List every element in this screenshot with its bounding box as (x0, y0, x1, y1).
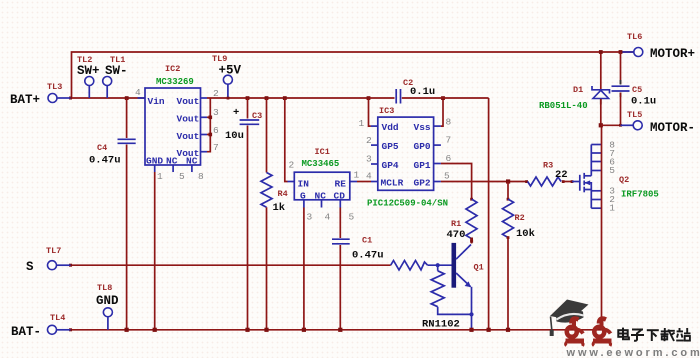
terminal TL6 (621, 32, 696, 61)
wire S line (69, 264, 391, 267)
IC3 pin 1 (359, 118, 378, 129)
watermark url (566, 347, 700, 358)
svg-text:C4: C4 (97, 143, 107, 153)
IC2 pin 7 (201, 142, 219, 153)
svg-text:1k: 1k (273, 202, 286, 214)
svg-text:C5: C5 (632, 85, 642, 95)
svg-text:TL6: TL6 (627, 32, 642, 42)
terminal TL3 BAT+ (10, 82, 71, 107)
IC3 pin 8 Vss (434, 117, 452, 128)
svg-text:Vout: Vout (177, 96, 200, 107)
IC2 pin 6 (201, 125, 220, 136)
svg-text:22: 22 (555, 169, 568, 181)
svg-text:Vss: Vss (414, 122, 431, 133)
IC2 pin 2 (201, 88, 220, 99)
wire drain/source vertical (601, 125, 603, 329)
svg-text:NC: NC (166, 156, 178, 167)
svg-text:TL5: TL5 (627, 110, 642, 120)
svg-text:S: S (26, 260, 34, 274)
watermark char zai (661, 328, 675, 341)
svg-text:C1: C1 (362, 236, 372, 246)
watermark char zi (631, 330, 644, 341)
svg-text:TL7: TL7 (46, 246, 61, 256)
svg-text:BAT-: BAT- (11, 325, 41, 339)
svg-text:www.eeworm.com: www.eeworm.com (566, 347, 700, 358)
svg-text:6: 6 (213, 125, 219, 136)
svg-text:+5V: +5V (219, 64, 242, 78)
capacitor C2 (369, 78, 489, 104)
svg-text:10k: 10k (516, 228, 535, 240)
svg-text:Q1: Q1 (474, 263, 484, 273)
watermark logo hat (550, 300, 589, 337)
wire Vdd drop (367, 96, 371, 126)
svg-text:SW+: SW+ (77, 64, 100, 78)
svg-text:MCLR: MCLR (381, 178, 404, 189)
svg-text:IN: IN (298, 179, 310, 190)
IC3 pin 3 NC stub (366, 154, 378, 165)
terminal TL9 +5V (212, 54, 242, 100)
svg-text:TL4: TL4 (50, 313, 65, 323)
resistor R2 (503, 182, 535, 330)
svg-text:Vout: Vout (177, 131, 200, 142)
wire RE to MCLR (357, 181, 371, 183)
op-amp U IC2 box (145, 64, 201, 167)
svg-text:470: 470 (447, 229, 466, 241)
svg-text:R2: R2 (515, 213, 525, 223)
svg-text:1: 1 (157, 171, 163, 182)
watermark char zhan (676, 328, 690, 341)
IC1 pin 4 NC stub (322, 200, 331, 223)
watermark bug 1 (566, 319, 585, 346)
junction node G/bus (302, 328, 306, 332)
svg-text:+: + (233, 107, 239, 119)
wire top bus (72, 52, 635, 98)
IC2 pin 8 NC stub (192, 165, 204, 182)
svg-text:R4: R4 (278, 189, 288, 199)
IC1 pin 2 IN stub (288, 181, 295, 183)
svg-text:GND: GND (96, 294, 119, 308)
wire bottom bus (69, 328, 602, 331)
wire Vout tie (207, 98, 212, 152)
IC1 pin 3 G lead (304, 200, 313, 330)
IC1 pin 1 RE (350, 170, 360, 182)
resistor R3 (525, 161, 572, 187)
wire IN drop (283, 96, 295, 181)
svg-text:5: 5 (609, 165, 615, 176)
svg-text:GP1: GP1 (414, 160, 431, 171)
IC3 pin 5 GP2 (434, 171, 450, 182)
svg-text:BAT+: BAT+ (10, 93, 40, 107)
svg-text:RN1102: RN1102 (422, 319, 460, 331)
svg-text:7: 7 (446, 135, 452, 146)
svg-text:MC33269: MC33269 (156, 77, 194, 87)
junction node C1/bus (338, 328, 342, 332)
svg-text:3: 3 (213, 107, 219, 118)
svg-text:2: 2 (366, 135, 372, 146)
junction node R4/bus (264, 328, 268, 332)
capacitor C4 (89, 98, 136, 330)
wire GP2 row (441, 181, 527, 183)
junction node Q1 emitter/bus (469, 328, 473, 332)
capacitor C5 (612, 50, 657, 125)
svg-text:GP4: GP4 (382, 160, 399, 171)
capacitor C3 (225, 96, 262, 330)
wire R1 to collector (470, 240, 473, 243)
svg-text:R3: R3 (543, 161, 553, 171)
terminal TL8 GND (96, 283, 119, 330)
svg-text:GP0: GP0 (414, 141, 431, 152)
svg-text:D1: D1 (573, 85, 583, 95)
terminal TL4 BAT- (11, 313, 71, 339)
op-amp U IC3 box (367, 106, 448, 209)
svg-text:4: 4 (366, 171, 372, 182)
wire D1 vertical (599, 50, 603, 89)
svg-text:GP2: GP2 (414, 178, 431, 189)
watermark char xia (647, 330, 659, 341)
terminal TL1 SW- (103, 55, 128, 98)
svg-text:1: 1 (359, 118, 365, 129)
svg-text:3: 3 (307, 212, 313, 223)
svg-text:MOTOR-: MOTOR- (650, 121, 695, 135)
wire GP1 to R1 (441, 164, 472, 200)
svg-text:CD: CD (334, 191, 346, 202)
resistor R1 (447, 198, 478, 244)
svg-text:TL9: TL9 (212, 54, 227, 64)
Q2 pin numbers (609, 140, 615, 214)
svg-text:4: 4 (135, 87, 141, 98)
IC1 pin 5 CD lead (340, 200, 354, 238)
diode D1 (539, 85, 610, 125)
svg-text:PIC12C509-04/SN: PIC12C509-04/SN (367, 199, 448, 209)
svg-text:8: 8 (198, 171, 204, 182)
wire BAT+ (69, 97, 145, 100)
transistor Q1 (391, 243, 484, 331)
junction node IC2 GND/bus (153, 328, 157, 332)
wire +5V bus (207, 97, 369, 99)
svg-text:1: 1 (354, 170, 360, 181)
svg-text:IC2: IC2 (165, 64, 180, 74)
IC3 pin 4 MCLR (366, 171, 378, 182)
svg-text:GP5: GP5 (382, 141, 399, 152)
svg-text:TL3: TL3 (47, 82, 62, 92)
svg-text:10u: 10u (225, 130, 244, 142)
svg-text:5: 5 (444, 171, 450, 182)
terminal TL7 S (26, 246, 71, 274)
IC2 pin 4 (135, 87, 145, 98)
junction node C4/bus (125, 328, 129, 332)
svg-text:3: 3 (366, 154, 372, 165)
svg-text:2: 2 (289, 160, 295, 171)
svg-text:0.1u: 0.1u (410, 86, 435, 98)
svg-text:MOTOR+: MOTOR+ (650, 47, 695, 61)
junction node BAT+/C4 (125, 96, 129, 100)
svg-text:G: G (300, 191, 306, 202)
svg-text:0.47u: 0.47u (89, 155, 121, 167)
capacitor C1 (332, 236, 384, 330)
svg-text:5: 5 (349, 212, 355, 223)
svg-text:SW-: SW- (105, 64, 128, 78)
IC2 pin 5 NC stub (173, 165, 185, 182)
IC2 pin 1 GND lead (155, 165, 163, 330)
IC3 pin 6 GP1 (434, 153, 452, 164)
IC3 pin 7 NC stub (434, 135, 452, 146)
svg-text:Vout: Vout (177, 114, 200, 125)
svg-text:R1: R1 (451, 219, 461, 229)
junction node R2/bus (506, 328, 510, 332)
svg-text:IRF7805: IRF7805 (621, 190, 659, 200)
transistor Q2 (571, 145, 602, 209)
svg-text:NC: NC (315, 191, 327, 202)
svg-text:5: 5 (179, 171, 185, 182)
svg-text:IC1: IC1 (315, 147, 330, 157)
op-amp U IC1 box (294, 147, 350, 202)
junction node C3/bus (245, 328, 249, 332)
svg-text:8: 8 (446, 117, 452, 128)
svg-text:1: 1 (609, 203, 615, 214)
svg-text:IC3: IC3 (379, 106, 394, 116)
svg-text:0.47u: 0.47u (352, 250, 384, 262)
wire ground drop (488, 98, 490, 330)
wire MOTOR- (599, 123, 622, 127)
svg-text:RB051L-40: RB051L-40 (539, 101, 588, 111)
watermark char dian (618, 328, 629, 340)
wire Vss rise (441, 96, 445, 126)
svg-text:TL8: TL8 (97, 283, 112, 293)
IC2 pin 3 (201, 107, 220, 118)
Q2 labels (619, 175, 659, 200)
watermark bug 2 (593, 319, 612, 346)
svg-text:NC: NC (186, 156, 198, 167)
svg-text:C3: C3 (252, 111, 262, 121)
svg-text:Q2: Q2 (619, 175, 629, 185)
resistor R4 (261, 96, 288, 330)
svg-text:GND: GND (146, 156, 163, 167)
svg-text:0.1u: 0.1u (631, 96, 656, 108)
svg-text:6: 6 (446, 153, 452, 164)
svg-text:4: 4 (325, 212, 331, 223)
svg-text:RE: RE (335, 179, 347, 190)
junction node gnd drop/bus (487, 328, 491, 332)
svg-text:MC33465: MC33465 (302, 159, 340, 169)
svg-text:7: 7 (213, 142, 219, 153)
svg-text:Vin: Vin (148, 96, 165, 107)
junction node R2 (506, 179, 510, 183)
terminal TL5 (621, 110, 696, 135)
svg-text:Vdd: Vdd (382, 122, 399, 133)
terminal TL2 SW+ (77, 55, 100, 98)
IC3 pin 2 NC stub (366, 135, 378, 146)
